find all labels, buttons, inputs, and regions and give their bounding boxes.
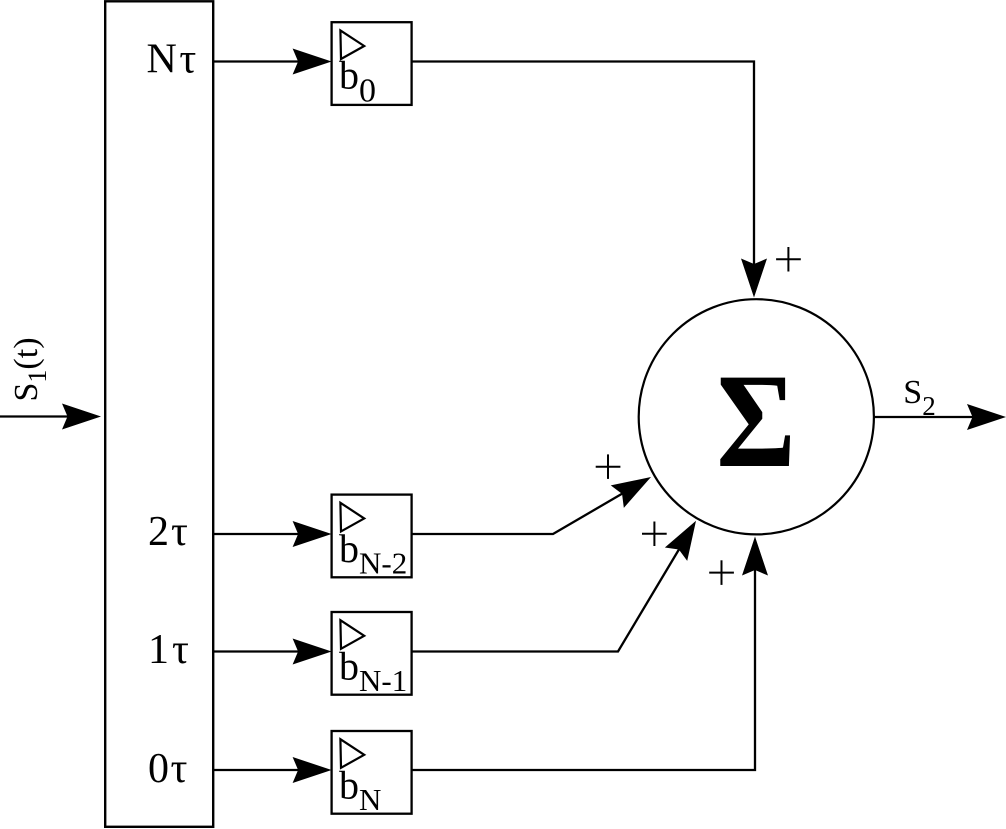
- wire b0 to summer top: [412, 62, 754, 266]
- svg-text:bN: bN: [339, 763, 381, 818]
- svg-text:1τ: 1τ: [148, 627, 189, 673]
- svg-text:b0: b0: [339, 53, 376, 110]
- wire 0tau to bN: [213, 769, 300, 771]
- plus sign top: [776, 247, 801, 272]
- arrowhead 2tau: [293, 521, 332, 547]
- arrowhead output: [967, 404, 1006, 430]
- svg-text:bN-1: bN-1: [339, 644, 407, 699]
- arrowhead 1tau: [293, 639, 332, 665]
- wire bN to summer bottom: [412, 570, 755, 770]
- coefficient box bN-2: [332, 495, 412, 581]
- svg-text:bN-2: bN-2: [339, 526, 407, 581]
- wire summer output S2: [874, 416, 979, 418]
- coefficient box bN: [332, 731, 412, 817]
- svg-text:S1(t): S1(t): [8, 337, 52, 401]
- op summer circle: [639, 299, 874, 534]
- plus sign bN-2: [596, 454, 621, 479]
- delay line rectangle: [105, 1, 213, 827]
- svg-text:Nτ: Nτ: [147, 36, 197, 82]
- arrowhead 0tau: [293, 757, 332, 783]
- wire 1tau to bN-1: [213, 650, 300, 652]
- coefficient box b0: [332, 22, 412, 109]
- svg-text:0τ: 0τ: [148, 746, 187, 792]
- svg-text:2τ: 2τ: [148, 509, 188, 555]
- coefficient box bN-1: [332, 612, 412, 698]
- svg-text:S2: S2: [903, 374, 935, 421]
- wire input S1(t): [0, 415, 70, 417]
- wire bN-2 to summer: [412, 492, 625, 534]
- wire bN-1 to summer: [412, 546, 681, 652]
- wire 2tau to bN-2: [213, 533, 300, 535]
- arrowhead summer bottom: [742, 537, 768, 576]
- arrowhead Ntau-b0: [293, 49, 332, 75]
- arrowhead bN-1 input: [665, 514, 707, 561]
- arrowhead summer top: [741, 259, 767, 298]
- plus sign bN-1: [642, 522, 667, 547]
- arrowhead input: [62, 404, 101, 430]
- plus sign bottom: [709, 560, 734, 585]
- svg-text:Σ: Σ: [716, 346, 795, 495]
- arrowhead bN-2 input: [611, 466, 658, 508]
- wire Ntau to b0: [213, 60, 300, 62]
